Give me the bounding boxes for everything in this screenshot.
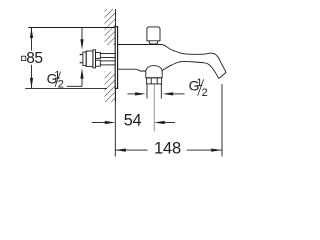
dim 148 line [115, 149, 147, 151]
svg-text:2: 2 [58, 78, 64, 90]
knob foot [149, 41, 158, 44]
spout inner bend [204, 63, 219, 79]
svg-text:2: 2 [202, 87, 208, 99]
pipe center line [153, 84, 155, 131]
arrow up to union bottom [81, 75, 83, 86]
wall hatch lower [105, 72, 116, 103]
G1/2 left leader [67, 85, 82, 87]
G1/2 right label [189, 77, 208, 99]
bell sides [145, 71, 147, 78]
pipe top wall crossing [100, 53, 115, 55]
wall face line [115, 9, 117, 102]
spout body bottom line [118, 69, 146, 71]
hex nut [147, 78, 162, 84]
dim 85 arrow down [30, 78, 33, 89]
union nut top [96, 52, 101, 58]
spout outer bend [210, 53, 226, 72]
union body [86, 51, 93, 67]
union cap plate [83, 52, 86, 66]
union nut bottom [96, 60, 101, 66]
G1/2 left label [47, 70, 64, 91]
dim 85 vertical dimension line [31, 28, 33, 51]
union flange [93, 50, 96, 68]
dim 85 top extension line [28, 27, 115, 29]
dim 85 arrow up [30, 28, 33, 39]
dim 85 bottom extension line [25, 87, 107, 89]
spout body top line [118, 44, 162, 46]
cap lip top [80, 54, 83, 56]
label square symbol [21, 56, 25, 60]
spout end face [219, 72, 226, 78]
wall hatch upper [105, 9, 116, 45]
svg-text:148: 148 [154, 139, 181, 157]
cap lip bottom [80, 62, 83, 64]
diverter knob [147, 27, 160, 41]
spout neck top curve [162, 45, 210, 55]
spout tip extension line [221, 84, 223, 157]
G1/2 right dim arrows [128, 93, 140, 95]
pipe bottom wall crossing [100, 60, 115, 62]
outlet pipe [146, 84, 148, 99]
svg-text:85: 85 [26, 50, 42, 67]
spout underside curve [162, 61, 204, 70]
escutcheon plate [115, 27, 117, 89]
dim 54 arrows [92, 122, 105, 124]
shower union bell [146, 66, 163, 71]
wall face extension line lower [114, 89, 116, 157]
arrow down to union top [81, 28, 83, 43]
svg-text:54: 54 [124, 112, 142, 130]
